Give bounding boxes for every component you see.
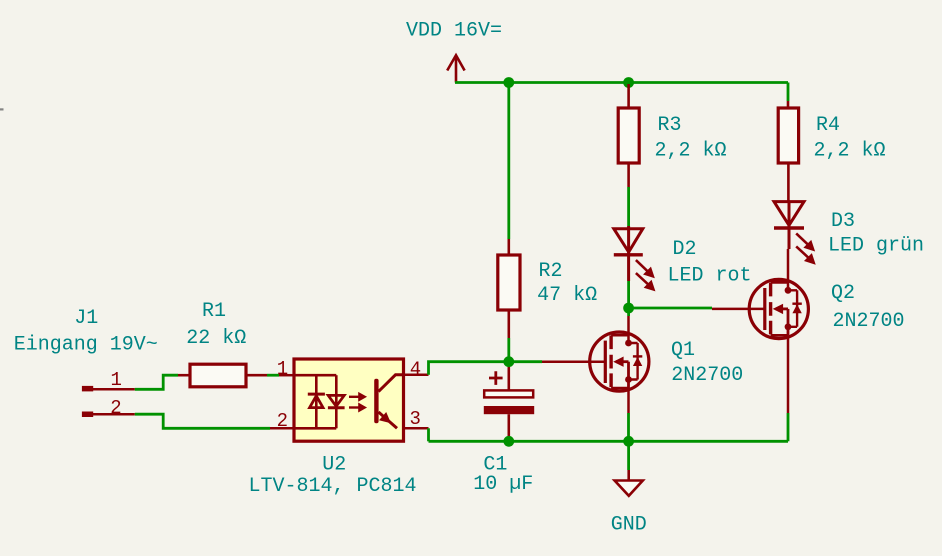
svg-text:D3: D3 bbox=[831, 210, 855, 233]
label 47 kΩ bbox=[537, 284, 597, 307]
label Eingang 19V~ bbox=[14, 334, 158, 357]
svg-text:2N2700: 2N2700 bbox=[832, 310, 904, 333]
svg-text:22 kΩ: 22 kΩ bbox=[186, 327, 246, 350]
resistor R1 bbox=[178, 364, 267, 387]
svg-text:VDD 16V=: VDD 16V= bbox=[406, 20, 502, 43]
capacitor C1 bbox=[484, 366, 534, 437]
label C1 bbox=[483, 454, 507, 477]
wire bottom rail bbox=[429, 440, 789, 443]
svg-text:Eingang 19V~: Eingang 19V~ bbox=[14, 334, 158, 357]
wire D2 to node bbox=[627, 281, 630, 308]
svg-text:2: 2 bbox=[277, 410, 288, 432]
label LED grün bbox=[828, 235, 924, 258]
label 2N2700 (Q2) bbox=[832, 310, 904, 333]
junction top rail at R3 bbox=[623, 77, 634, 88]
wire R2 bottom to node bbox=[507, 338, 510, 362]
svg-text:U2: U2 bbox=[322, 454, 346, 477]
label U2 bbox=[322, 454, 346, 477]
svg-text:10 µF: 10 µF bbox=[473, 473, 533, 496]
U2 pin 3 bbox=[404, 427, 429, 430]
svg-text:4: 4 bbox=[410, 359, 421, 381]
wire node to Q2 gate bbox=[629, 307, 712, 310]
label VDD 16V= bbox=[406, 20, 502, 43]
svg-text:2,2 kΩ: 2,2 kΩ bbox=[654, 140, 726, 163]
svg-text:LTV-814, PC814: LTV-814, PC814 bbox=[248, 475, 416, 498]
sheet border tick bbox=[0, 108, 4, 110]
label R1 bbox=[202, 300, 226, 323]
pin number 4 (U2) bbox=[410, 359, 421, 381]
label R4 bbox=[816, 114, 840, 137]
resistor R2 bbox=[498, 239, 520, 338]
svg-text:LED rot: LED rot bbox=[667, 265, 751, 288]
junction bottom rail at C1 bbox=[503, 436, 514, 447]
label LED rot bbox=[667, 265, 751, 288]
LED D2 emission arrows bbox=[636, 260, 654, 289]
junction bottom rail at GND bbox=[623, 436, 634, 447]
label R2 bbox=[538, 260, 562, 283]
svg-text:3: 3 bbox=[409, 408, 420, 430]
resistor R4 bbox=[778, 101, 798, 202]
U2 pin 2 bbox=[270, 427, 294, 430]
wire R4 drop bbox=[787, 83, 790, 102]
svg-text:GND: GND bbox=[611, 514, 647, 537]
wire Q1 source to rail bbox=[627, 413, 630, 441]
U2 phototransistor bbox=[374, 375, 403, 429]
label GND bbox=[611, 514, 647, 537]
label J1 bbox=[74, 307, 98, 330]
wire GND stem bbox=[627, 441, 630, 470]
wire J1.1 to R1 bbox=[135, 375, 178, 389]
wire top rail bbox=[455, 81, 788, 84]
svg-text:Q2: Q2 bbox=[831, 282, 855, 305]
wire R2 top bbox=[507, 83, 510, 240]
pin number 2 (U2) bbox=[277, 410, 288, 432]
svg-text:47 kΩ: 47 kΩ bbox=[537, 284, 597, 307]
label Q1 bbox=[671, 339, 695, 362]
wire U2.4 to node bbox=[429, 362, 509, 375]
label 2,2 kΩ (R3) bbox=[654, 140, 726, 163]
svg-text:1: 1 bbox=[110, 369, 121, 391]
pin number 1 (U2) bbox=[277, 358, 288, 380]
label D3 bbox=[831, 210, 855, 233]
power symbol VDD bbox=[447, 55, 464, 82]
LED D2 bbox=[614, 226, 643, 281]
label 2,2 kΩ (R4) bbox=[813, 140, 885, 163]
svg-text:2: 2 bbox=[110, 397, 121, 419]
pin number 3 (U2) bbox=[409, 408, 420, 430]
transistor Q2 bbox=[712, 249, 808, 413]
svg-text:Q1: Q1 bbox=[671, 339, 695, 362]
svg-text:R3: R3 bbox=[657, 114, 681, 137]
svg-text:1: 1 bbox=[277, 358, 288, 380]
wire Q2 source to rail bbox=[787, 413, 790, 441]
label D2 bbox=[672, 238, 696, 261]
wire U2.3 to bottom rail bbox=[427, 428, 430, 441]
label LTV-814, PC814 bbox=[248, 475, 416, 498]
wire R1 to U2.1 bbox=[267, 374, 279, 377]
ground symbol bbox=[615, 470, 643, 496]
svg-text:J1: J1 bbox=[74, 307, 98, 330]
wire node to Q1 gate bbox=[509, 360, 542, 363]
junction top rail at R2 bbox=[503, 77, 514, 88]
transistor Q1 bbox=[542, 316, 649, 413]
U2 coupling arrows bbox=[349, 394, 365, 411]
label 2N2700 (Q1) bbox=[671, 364, 743, 387]
label 22 kΩ bbox=[186, 327, 246, 350]
pin number 2 (J1) bbox=[110, 397, 121, 419]
LED D3 bbox=[774, 202, 804, 249]
junction node D2 / Q1 drain / Q2 gate bbox=[623, 303, 634, 314]
svg-text:R4: R4 bbox=[816, 114, 840, 137]
svg-text:2,2 kΩ: 2,2 kΩ bbox=[813, 140, 885, 163]
svg-text:D2: D2 bbox=[672, 238, 696, 261]
U2 pin 4 bbox=[404, 374, 429, 377]
LED D3 emission arrows bbox=[796, 233, 814, 262]
wire node down to Q1 bbox=[627, 308, 630, 316]
junction node R2/C1/U2.4/Q1 gate bbox=[503, 356, 514, 367]
svg-text:R2: R2 bbox=[538, 260, 562, 283]
wire R3 to D2 bbox=[627, 187, 630, 226]
U2 input LED pair bbox=[294, 375, 345, 428]
wire J1.2 to U2.2 bbox=[135, 414, 270, 428]
connector J1 pin 1 bbox=[82, 386, 135, 392]
label R3 bbox=[657, 114, 681, 137]
optocoupler U2 body bbox=[294, 359, 404, 441]
label 10 µF bbox=[473, 473, 533, 496]
svg-text:LED grün: LED grün bbox=[828, 235, 924, 258]
svg-text:R1: R1 bbox=[202, 300, 226, 323]
resistor R3 bbox=[618, 84, 639, 187]
connector J1 pin 2 bbox=[82, 412, 135, 418]
svg-text:2N2700: 2N2700 bbox=[671, 364, 743, 387]
pin number 1 (J1) bbox=[110, 369, 121, 391]
label Q2 bbox=[831, 282, 855, 305]
U2 pin 1 bbox=[279, 374, 294, 377]
